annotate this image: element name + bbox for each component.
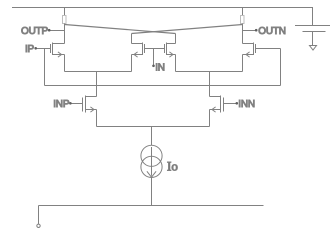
node INP <box>53 99 82 110</box>
wire bottom rail <box>39 205 264 207</box>
wire M6 source down <box>209 110 211 127</box>
transistor M5 INP <box>83 96 97 113</box>
wire M6 source to tail <box>152 126 210 128</box>
resistor R1 <box>63 16 67 24</box>
node OUTP <box>21 26 64 37</box>
wire right column to OUTN node and M2 drain <box>242 24 244 44</box>
wire right column upper <box>242 8 244 16</box>
svg-text:IN: IN <box>155 62 165 73</box>
wire tail down to current source <box>151 127 153 146</box>
wire M5 source to tail <box>97 126 152 128</box>
wire left column to OUTP node and M1 drain <box>64 24 66 44</box>
svg-text:OUTN: OUTN <box>258 26 286 37</box>
wire top rail VDD <box>12 7 313 9</box>
svg-text:IP: IP <box>25 44 35 55</box>
wire right source join bar <box>176 71 243 73</box>
svg-text:OUTP: OUTP <box>21 26 49 37</box>
wire middle pair gate link <box>145 48 165 50</box>
svg-text:INN: INN <box>238 99 255 110</box>
wire INN drain riser <box>209 72 211 97</box>
node INN <box>224 99 255 110</box>
wire current source to bottom rail <box>151 178 153 206</box>
wire M3 source down <box>131 55 133 72</box>
transistor M2 <box>243 43 256 58</box>
wire M5 source down <box>96 110 98 127</box>
wire M1 source down <box>64 55 66 72</box>
capacitor C1 <box>295 26 330 46</box>
transistor M4 <box>165 43 176 58</box>
resistor R2 <box>241 16 245 24</box>
terminal pin <box>37 224 40 227</box>
transistor M1 <box>51 43 65 58</box>
wire M2 gate to bias line <box>256 48 281 50</box>
wire M4 source down <box>175 55 177 72</box>
svg-text:INP: INP <box>53 99 70 110</box>
wire cross-couple diagonal right <box>132 25 243 34</box>
wire INP drain riser <box>96 72 98 97</box>
node OUTN <box>243 26 286 37</box>
transistor M3 <box>132 43 145 58</box>
wire M3 drain riser <box>131 34 133 44</box>
node IN <box>152 49 165 74</box>
wire bias riser right <box>280 49 282 86</box>
wire terminal drop <box>38 206 40 225</box>
node IP <box>25 44 51 55</box>
wire bias line horizontal <box>45 85 281 87</box>
current source Io <box>141 145 178 177</box>
wire cross-couple diagonal left <box>65 25 176 34</box>
ground <box>310 46 317 51</box>
wire left column upper <box>64 8 66 16</box>
wire bias riser left to IP <box>44 49 46 86</box>
wire left source join bar <box>65 71 132 73</box>
transistor M6 INN <box>210 96 224 113</box>
wire M4 drain riser <box>175 34 177 44</box>
wire capacitor riser <box>312 8 314 26</box>
wire M2 source down <box>242 55 244 72</box>
svg-text:Io: Io <box>167 158 178 173</box>
